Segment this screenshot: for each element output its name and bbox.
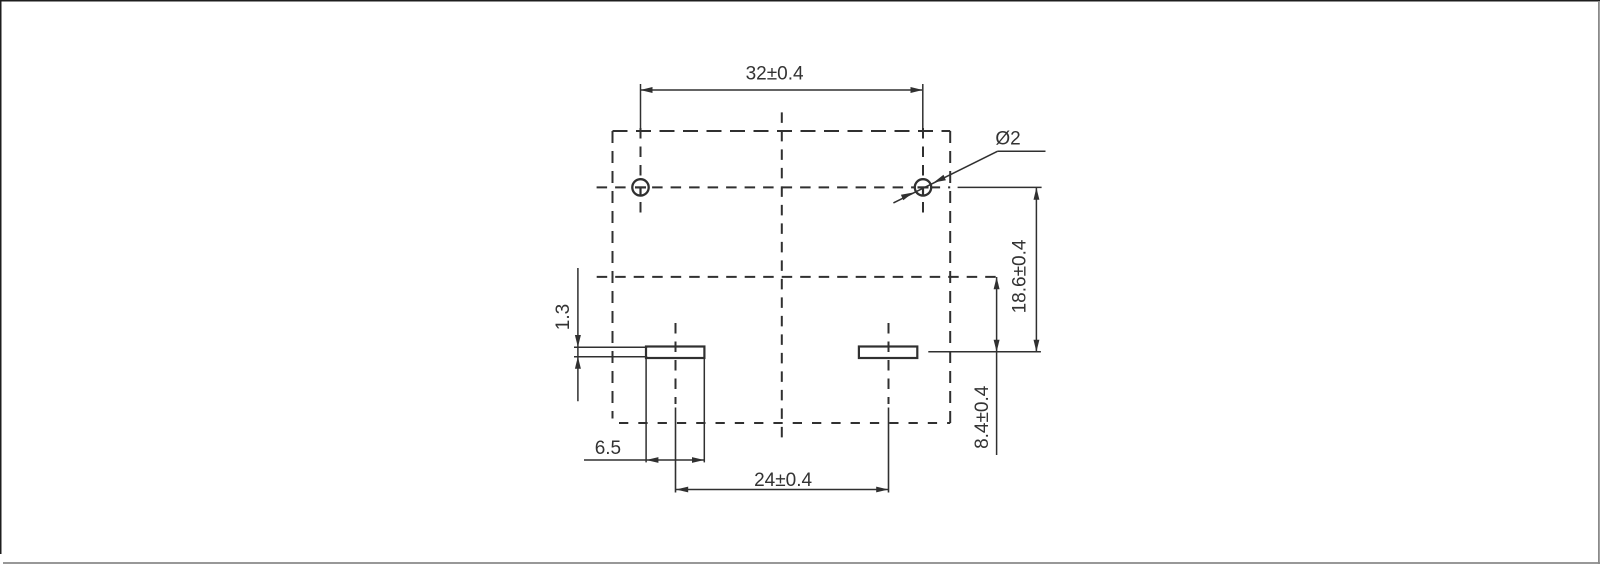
svg-text:32±0.4: 32±0.4 <box>746 64 804 85</box>
svg-text:18.6±0.4: 18.6±0.4 <box>1010 239 1031 313</box>
svg-text:8.4±0.4: 8.4±0.4 <box>972 385 993 449</box>
svg-text:Ø2: Ø2 <box>995 129 1020 150</box>
svg-text:1.3: 1.3 <box>553 304 574 330</box>
svg-text:6.5: 6.5 <box>595 438 621 459</box>
svg-text:24±0.4: 24±0.4 <box>754 470 812 491</box>
